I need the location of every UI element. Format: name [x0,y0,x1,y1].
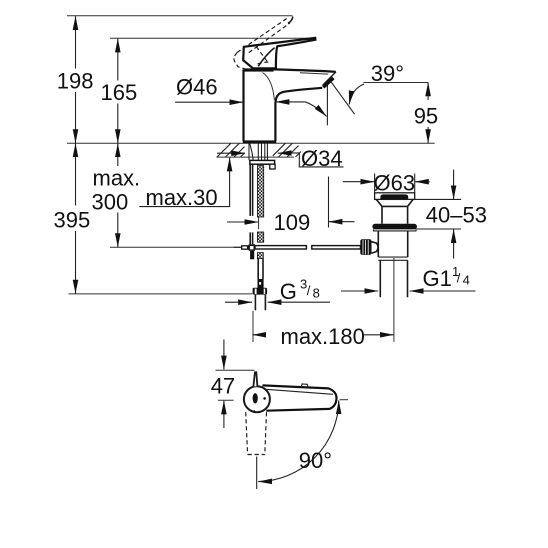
G3/8 compression nut [253,288,268,295]
drain rim plate [375,193,415,200]
knob socket cone [372,242,379,254]
dimension 40-53 [413,170,487,259]
dimension 90 degrees [258,400,348,482]
label 39 degrees [305,61,428,125]
pivot circle [244,386,270,412]
svg-text:198: 198 [57,69,94,94]
wire bottom reference line 395 [69,293,253,295]
drain plug cap (dark) [380,194,408,199]
wire reference line 165 [110,37,315,39]
dimension 395 [54,143,91,293]
rod clamp cross [234,244,255,259]
svg-text:90°: 90° [299,448,332,473]
centerline below cone [256,457,258,490]
horizontal operating rod [255,246,360,249]
lever body [263,385,337,410]
faucet body and spout [243,68,336,141]
dark cap band at body top [243,68,273,71]
aerator dark strip [323,78,333,87]
dimension max. 300 [92,143,141,247]
tail pipe [380,260,407,297]
faucet solid handle [243,38,315,68]
pop-up pull rod (vertical, upper) [250,164,252,216]
pipe stub below nut [255,295,265,310]
dimension 165 [101,39,138,143]
wire countertop line [67,142,435,144]
label G3/8 [225,277,330,304]
spout tip face [323,72,336,85]
countertop hatching left [217,143,245,157]
stud centerline [258,217,260,229]
countertop bottom line [217,156,295,158]
svg-text:G1: G1 [423,266,452,291]
svg-text:300: 300 [92,189,129,214]
drain flange (dark) [372,224,417,230]
faucet handle raised (dashed) [234,17,293,69]
mounting shank tubes [249,143,267,160]
arc arrow to vertical witness [305,102,327,117]
svg-text:max.180: max.180 [281,324,365,349]
dimension max.180 [252,324,393,349]
svg-text:95: 95 [414,103,438,128]
svg-text:40–53: 40–53 [426,203,487,228]
threaded stud below rod [257,253,263,259]
svg-text:max.: max. [93,166,141,191]
svg-text:4: 4 [463,273,470,288]
drain centerline [393,258,395,342]
handle spike tab [253,372,257,386]
faucet base dark band [243,140,276,143]
bottom view: handle plan [244,372,337,489]
bottom view: dimension 47 [211,340,255,429]
label G1 1/4 [341,264,476,291]
dimension 109 [227,177,355,235]
dimension O34 with boxed label [217,146,344,171]
svg-text:/: / [307,283,311,298]
svg-text:165: 165 [101,80,138,105]
body outline [244,70,276,142]
plate foot [270,164,275,169]
drain body below flange [378,231,407,257]
drain O63 dimension [343,170,430,195]
lever top notch [301,384,308,388]
svg-text:109: 109 [274,210,311,235]
svg-text:G: G [280,279,297,304]
threaded stud lower segment [257,232,263,242]
dimension 198 [57,16,94,143]
dimension 95 [414,83,438,144]
svg-text:8: 8 [313,286,320,301]
39 deg diagonal line [331,82,354,114]
body/spout inner curve [263,73,275,101]
dashed cone below [246,412,248,454]
mounting plate [250,160,275,169]
wire rod level reference line [110,246,241,248]
threaded stud upper segment [257,166,263,217]
slot in pivot [253,393,258,403]
spout inner contour [300,73,328,74]
svg-text:/: / [457,271,461,286]
svg-text:47: 47 [211,374,235,399]
small dots [263,397,266,400]
svg-text:Ø63: Ø63 [374,170,416,195]
rod end below clamp [250,251,254,259]
flange lip [374,229,417,231]
lever inner line [266,389,333,394]
dimension O46 [175,74,305,102]
locknut band [378,257,407,260]
svg-text:Ø46: Ø46 [176,74,218,99]
39 deg vertical witness from aerator [326,82,328,126]
drain assembly [360,193,417,342]
pop-up knob (dark knurled) [360,239,371,255]
spout top edge [273,69,336,71]
countertop hatching right [273,143,301,157]
wire top reference line 198 [67,15,293,17]
drain neck taper [377,200,413,224]
spout underside [275,88,322,103]
label max.30 with leader [139,158,229,210]
svg-text:Ø34: Ø34 [301,146,343,171]
39 deg angle arc to diagonal [349,84,364,104]
svg-text:395: 395 [54,208,91,233]
supply pipe below stud [258,259,264,289]
pop-up pull rod lower segment [250,232,252,244]
witness line below pipe [252,311,254,342]
